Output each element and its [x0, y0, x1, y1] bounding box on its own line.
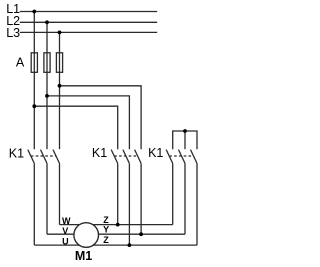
svg-text:Z: Z [103, 235, 109, 245]
svg-text:W: W [62, 216, 71, 226]
svg-text:L3: L3 [6, 26, 20, 40]
svg-text:M1: M1 [75, 249, 92, 263]
svg-text:K1: K1 [92, 146, 107, 160]
svg-text:K1: K1 [9, 146, 24, 160]
svg-text:K1: K1 [148, 146, 163, 160]
svg-text:Y: Y [103, 225, 109, 235]
svg-text:Z: Z [103, 215, 109, 225]
svg-text:A: A [16, 56, 25, 70]
svg-text:V: V [62, 226, 68, 236]
svg-text:U: U [62, 236, 69, 246]
